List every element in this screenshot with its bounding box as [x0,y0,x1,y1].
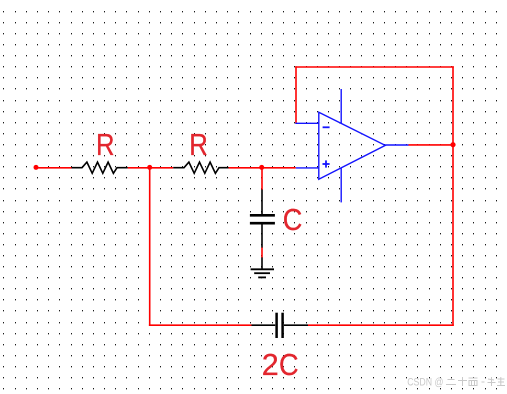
书 [488,377,496,386]
ground [251,257,274,277]
svg-text:CSDN @: CSDN @ [407,376,443,388]
wire: R1 to node A [128,167,174,169]
wire: input to R1 [36,167,72,169]
node: output junction dot [450,142,455,147]
watermark CSDN [407,376,443,388]
node A junction dot [147,165,152,170]
wire: op-amp output to right vertical [409,144,454,146]
wire: node A down to bottom rail [149,167,151,325]
wire: bottom rail right of 2C [308,324,454,326]
wire: feedback top rail [295,66,454,68]
op-amp bottom power pin [340,168,342,202]
wire: bottom rail left of 2C [149,324,252,326]
capacitor 2C [252,313,309,338]
op-amp output stub [385,144,409,146]
生 [497,377,505,386]
svg-text:C: C [283,204,303,238]
wire: right vertical output to bottom rail [452,66,454,326]
op-amp minus sign [323,126,330,128]
画 [469,378,478,386]
node: input terminal dot [34,165,39,170]
wire: node B down to capacitor C [261,167,263,190]
wire: feedback left vertical to inverting input [295,66,297,123]
wire: capacitor C to ground [261,247,263,257]
resistor R2 [173,162,228,173]
svg-text:R: R [189,128,208,162]
op-amp top power pin [340,89,342,123]
watermark CJK glyph strokes [446,377,505,386]
resistor R1 [72,162,128,173]
· [482,381,485,383]
node B junction dot [259,165,264,170]
op-amp non-inverting input stub [296,167,319,169]
svg-text:2: 2 [262,348,279,382]
wire: R2 to node B [229,167,296,169]
svg-text:R: R [96,128,115,162]
op-amp plus sign [323,163,330,165]
svg-text:C: C [279,349,299,383]
capacitor C [250,190,275,248]
op-amp inverting input stub [295,122,319,124]
op-amp U1 [295,89,408,202]
十 [458,377,467,386]
二 [446,380,456,385]
